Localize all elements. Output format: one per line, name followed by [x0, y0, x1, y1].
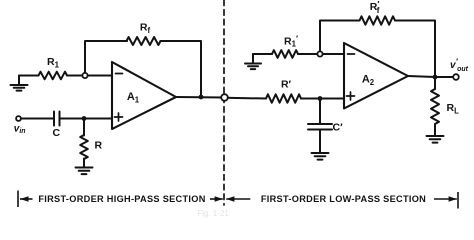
svg-text:C′: C′ — [333, 122, 344, 134]
svg-text:R1′: R1′ — [284, 34, 298, 49]
svg-text:R′: R′ — [281, 79, 292, 91]
svg-text:R′f: R′f — [370, 0, 380, 15]
svg-text:FIRST-ORDER HIGH-PASS SECTION: FIRST-ORDER HIGH-PASS SECTION — [38, 194, 205, 204]
svg-text:FIRST-ORDER LOW-PASS SECTION: FIRST-ORDER LOW-PASS SECTION — [261, 194, 426, 204]
svg-text:Fig. 1-21: Fig. 1-21 — [197, 209, 229, 218]
svg-text:C: C — [53, 127, 61, 139]
svg-text:R: R — [95, 140, 103, 152]
